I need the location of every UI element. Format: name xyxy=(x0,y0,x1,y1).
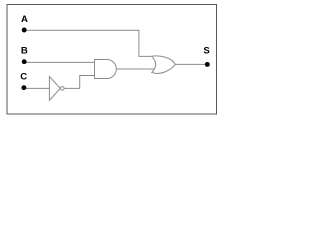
inverter bubble xyxy=(61,87,65,91)
node B dot xyxy=(22,59,27,64)
node C dot xyxy=(21,85,26,90)
node A dot xyxy=(22,28,27,33)
wire B: node B to AND gate input 1 xyxy=(24,61,96,63)
border frame xyxy=(7,5,217,115)
inverter (NOT gate) triangle xyxy=(49,77,60,101)
wire: inverter output to AND gate input 2 xyxy=(64,75,96,88)
wire A: node A to OR gate top input xyxy=(24,30,153,56)
svg-text:B: B xyxy=(21,46,28,57)
svg-text:A: A xyxy=(21,14,28,25)
AND gate U1 xyxy=(95,60,117,79)
wire: AND gate output to OR gate lower input xyxy=(116,68,156,70)
svg-text:S: S xyxy=(203,46,210,57)
svg-text:C: C xyxy=(20,71,27,82)
node S dot xyxy=(205,62,210,67)
OR gate U2 xyxy=(152,56,176,73)
wire: OR gate output to node S xyxy=(175,63,208,65)
wire C: node C to inverter input xyxy=(24,87,50,89)
